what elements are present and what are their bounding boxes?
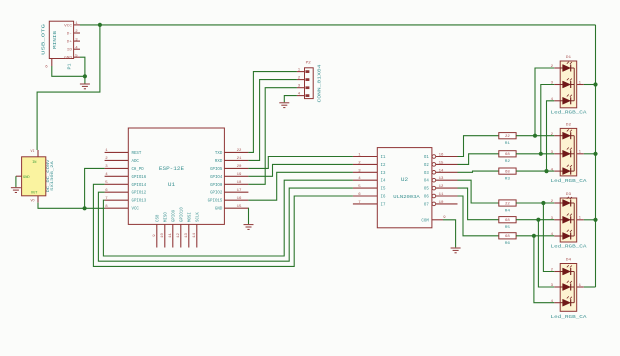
svg-text:VCC: VCC bbox=[64, 24, 72, 28]
wire O6 to R6 bbox=[458, 196, 499, 236]
wire branch to D1.4 bbox=[547, 101, 555, 171]
node D2 anode bbox=[593, 152, 597, 156]
svg-text:TXD: TXD bbox=[215, 152, 223, 156]
svg-text:R2: R2 bbox=[505, 160, 511, 164]
svg-text:O7: O7 bbox=[424, 203, 429, 207]
wire VO to VCC net bbox=[38, 203, 105, 209]
wire P2.4 to ground bbox=[284, 96, 297, 103]
wire CH_PD tie bbox=[85, 168, 105, 208]
resistor R5 bbox=[499, 217, 516, 231]
node R1 branch bbox=[533, 134, 537, 138]
svg-text:ID: ID bbox=[67, 49, 73, 53]
svg-text:GPIO5: GPIO5 bbox=[210, 168, 223, 172]
svg-text:USB_OTG: USB_OTG bbox=[41, 24, 46, 55]
node VCC junction bbox=[98, 23, 102, 27]
svg-text:D4: D4 bbox=[566, 259, 572, 263]
svg-text:IN: IN bbox=[32, 161, 36, 165]
ground P2 bbox=[279, 103, 289, 108]
svg-text:I2: I2 bbox=[381, 164, 386, 168]
wire R4 to D3.2 bbox=[516, 202, 554, 204]
wire DC-DC GND to ground bbox=[15, 176, 17, 187]
LED D3 Led_RGB_CA bbox=[551, 193, 587, 249]
node R6 branch bbox=[532, 234, 536, 238]
wire COM to ground bbox=[443, 220, 456, 248]
wire GPIO12 to I5 bbox=[98, 188, 353, 261]
svg-text:R3: R3 bbox=[505, 178, 511, 182]
LED D2 Led_RGB_CA bbox=[551, 124, 587, 185]
svg-text:16: 16 bbox=[237, 197, 243, 201]
svg-text:Led_RGB_CA: Led_RGB_CA bbox=[551, 109, 587, 115]
wire USB shield bbox=[52, 66, 85, 76]
wire ESP GND bbox=[247, 208, 249, 224]
svg-text:11: 11 bbox=[169, 232, 173, 238]
wire branch to D1.2 bbox=[535, 68, 554, 136]
wire R2 to D2.3 bbox=[516, 153, 554, 155]
svg-text:Led_RGB_CA: Led_RGB_CA bbox=[551, 243, 587, 249]
node R4 branch bbox=[541, 201, 545, 205]
svg-text:VCC: VCC bbox=[132, 208, 140, 212]
wire GPIO0 to P2.3 bbox=[248, 88, 297, 185]
LED D1 Led_RGB_CA bbox=[551, 56, 587, 115]
wire branch to D4.2 bbox=[543, 203, 554, 272]
wire GPIO4 to I2 bbox=[248, 164, 353, 176]
svg-text:D3: D3 bbox=[566, 193, 572, 197]
svg-text:O3: O3 bbox=[424, 172, 429, 176]
svg-text:GPIO13: GPIO13 bbox=[132, 200, 147, 204]
svg-text:O1: O1 bbox=[424, 156, 429, 160]
svg-text:10: 10 bbox=[161, 232, 165, 238]
svg-text:I3: I3 bbox=[381, 172, 386, 176]
svg-text:12: 12 bbox=[177, 232, 181, 238]
svg-text:R1: R1 bbox=[505, 142, 511, 146]
wire O3 to R3 bbox=[458, 171, 499, 172]
ULN2003A U2 bbox=[353, 148, 458, 228]
svg-text:16: 16 bbox=[439, 154, 445, 158]
svg-text:13: 13 bbox=[439, 177, 445, 181]
wire to ground bbox=[84, 76, 86, 83]
node R3 branch bbox=[544, 169, 548, 173]
svg-text:MOSI: MOSI bbox=[188, 212, 192, 222]
svg-text:R4: R4 bbox=[505, 209, 511, 213]
wire O1 to R1 bbox=[458, 136, 499, 157]
svg-text:10: 10 bbox=[439, 201, 445, 205]
svg-text:GPIO0: GPIO0 bbox=[210, 184, 223, 188]
svg-text:14: 14 bbox=[439, 169, 445, 173]
svg-text:I4: I4 bbox=[381, 180, 386, 184]
ESP-12E module U1 bbox=[105, 128, 249, 248]
wire USB GND bbox=[80, 57, 85, 76]
svg-text:I5: I5 bbox=[381, 188, 386, 192]
wire R1 to D2.2 bbox=[516, 135, 554, 137]
svg-text:R5: R5 bbox=[505, 226, 511, 230]
svg-text:CS0: CS0 bbox=[156, 214, 160, 222]
wire O2 to R2 bbox=[458, 154, 499, 165]
wire branch to D4.3 bbox=[538, 220, 554, 287]
svg-text:GND: GND bbox=[64, 57, 72, 61]
svg-text:COM: COM bbox=[421, 219, 429, 223]
node D3 anode bbox=[593, 218, 597, 222]
svg-text:I6: I6 bbox=[381, 196, 386, 200]
svg-text:D+: D+ bbox=[67, 41, 73, 45]
svg-text:22: 22 bbox=[237, 149, 243, 153]
svg-text:12: 12 bbox=[439, 185, 445, 189]
ground USB bbox=[80, 84, 90, 89]
svg-text:SX1308_2A: SX1308_2A bbox=[51, 160, 55, 191]
svg-text:11: 11 bbox=[439, 193, 445, 197]
svg-text:17: 17 bbox=[237, 189, 242, 193]
svg-text:15: 15 bbox=[439, 161, 445, 165]
wire D1.1 to rail bbox=[584, 84, 596, 86]
svg-text:O2: O2 bbox=[424, 164, 429, 168]
svg-text:RXD: RXD bbox=[215, 160, 223, 164]
svg-text:18: 18 bbox=[237, 181, 243, 185]
svg-text:68: 68 bbox=[505, 153, 511, 157]
svg-text:21: 21 bbox=[237, 157, 243, 161]
svg-text:GPIO2: GPIO2 bbox=[210, 192, 223, 196]
wire GPIO13 to I4 bbox=[103, 180, 353, 256]
svg-text:Led_RGB_CA: Led_RGB_CA bbox=[551, 178, 587, 184]
svg-text:13: 13 bbox=[185, 232, 189, 238]
svg-text:O5: O5 bbox=[424, 188, 429, 192]
wire R5 to D3.3 bbox=[516, 219, 554, 221]
svg-text:O4: O4 bbox=[424, 180, 429, 184]
wire D3.1 to rail bbox=[584, 219, 596, 221]
wire D4.1 to rail bbox=[584, 286, 596, 288]
node D1 anode bbox=[593, 82, 597, 86]
svg-text:14: 14 bbox=[193, 232, 197, 238]
svg-text:15: 15 bbox=[237, 205, 243, 209]
svg-text:MINIB: MINIB bbox=[54, 30, 58, 49]
svg-text:O6: O6 bbox=[424, 196, 429, 200]
ground ESP bbox=[244, 225, 254, 230]
svg-text:I7: I7 bbox=[381, 203, 386, 207]
wire D2.1 to rail bbox=[584, 153, 596, 155]
svg-text:20: 20 bbox=[237, 165, 243, 169]
svg-text:OUT: OUT bbox=[31, 192, 38, 196]
resistor R4 bbox=[499, 200, 516, 214]
node R5 branch bbox=[536, 218, 540, 222]
ground DC-DC bbox=[11, 188, 21, 193]
svg-text:D2: D2 bbox=[566, 124, 572, 128]
LED D4 Led_RGB_CA bbox=[551, 259, 587, 320]
resistor R6 bbox=[499, 233, 516, 247]
svg-text:19: 19 bbox=[237, 173, 243, 177]
DC-DC converter module bbox=[16, 149, 55, 203]
wire R6 to D3.4 bbox=[516, 235, 554, 237]
ground COM bbox=[451, 248, 461, 253]
wire branch to D1.3 bbox=[541, 85, 554, 154]
svg-text:7: 7 bbox=[105, 197, 107, 201]
svg-text:22: 22 bbox=[505, 135, 511, 139]
svg-text:P1: P1 bbox=[68, 63, 72, 70]
wire GPIO14 to I6 bbox=[93, 184, 353, 266]
svg-text:GPIO9: GPIO9 bbox=[172, 209, 176, 222]
node R2 branch bbox=[539, 152, 543, 156]
svg-text:68: 68 bbox=[505, 171, 511, 175]
svg-text:GND: GND bbox=[215, 208, 223, 212]
wire TXD to P2.1 bbox=[248, 72, 297, 153]
wire VCC to DC-DC VI bbox=[37, 25, 100, 150]
svg-text:SCLK: SCLK bbox=[196, 212, 200, 222]
svg-text:D-: D- bbox=[67, 33, 72, 37]
connector P1 USB_OTG bbox=[41, 21, 80, 69]
svg-text:ESP-12E: ESP-12E bbox=[159, 166, 184, 172]
svg-text:ADC: ADC bbox=[132, 160, 140, 164]
wire GPIO15 to I3 bbox=[248, 172, 353, 200]
wire branch to D4.4 bbox=[534, 236, 554, 303]
svg-text:GPIO4: GPIO4 bbox=[210, 176, 223, 180]
svg-text:ULN2003A: ULN2003A bbox=[393, 194, 420, 200]
svg-text:GPIO16: GPIO16 bbox=[132, 176, 147, 180]
svg-text:CONN_01X04: CONN_01X04 bbox=[316, 64, 322, 102]
svg-text:D1: D1 bbox=[566, 56, 572, 60]
wire O4 to R4 bbox=[458, 180, 499, 203]
svg-text:7: 7 bbox=[358, 201, 360, 205]
wire RXD to P2.2 bbox=[248, 80, 297, 161]
svg-text:Led_RGB_CA: Led_RGB_CA bbox=[551, 314, 587, 320]
svg-text:REST: REST bbox=[132, 152, 142, 156]
svg-text:68: 68 bbox=[505, 235, 511, 239]
svg-text:U1: U1 bbox=[168, 182, 175, 188]
svg-text:GPIO15: GPIO15 bbox=[208, 200, 223, 204]
svg-text:I1: I1 bbox=[381, 156, 386, 160]
wire O5 to R5 bbox=[458, 188, 499, 220]
wire R3 to D2.4 bbox=[516, 170, 554, 172]
wire GPIO5 to I1 bbox=[248, 157, 353, 169]
svg-text:GPIO12: GPIO12 bbox=[132, 192, 147, 196]
svg-text:VO: VO bbox=[31, 199, 35, 203]
svg-text:MISO: MISO bbox=[164, 212, 168, 222]
svg-text:VI: VI bbox=[31, 149, 35, 153]
svg-text:U2: U2 bbox=[401, 177, 408, 183]
resistor R1 bbox=[499, 133, 516, 147]
svg-text:68: 68 bbox=[505, 219, 511, 223]
wire LED common-anode rail bbox=[595, 25, 597, 287]
svg-text:GPIO10: GPIO10 bbox=[180, 207, 184, 222]
resistor R2 bbox=[499, 151, 516, 165]
wire VCC net top bbox=[80, 24, 596, 26]
svg-text:P2: P2 bbox=[306, 62, 312, 66]
header P2 CONN_01X04 bbox=[297, 62, 322, 103]
svg-text:CH_PD: CH_PD bbox=[132, 168, 145, 172]
node USB ground junction bbox=[83, 74, 87, 78]
node VCC/CH_PD junction bbox=[83, 206, 87, 210]
svg-text:GPIO14: GPIO14 bbox=[132, 184, 147, 188]
svg-text:R6: R6 bbox=[505, 242, 511, 246]
svg-text:GND: GND bbox=[23, 176, 30, 180]
resistor R3 bbox=[499, 168, 516, 182]
svg-text:22: 22 bbox=[505, 202, 511, 206]
